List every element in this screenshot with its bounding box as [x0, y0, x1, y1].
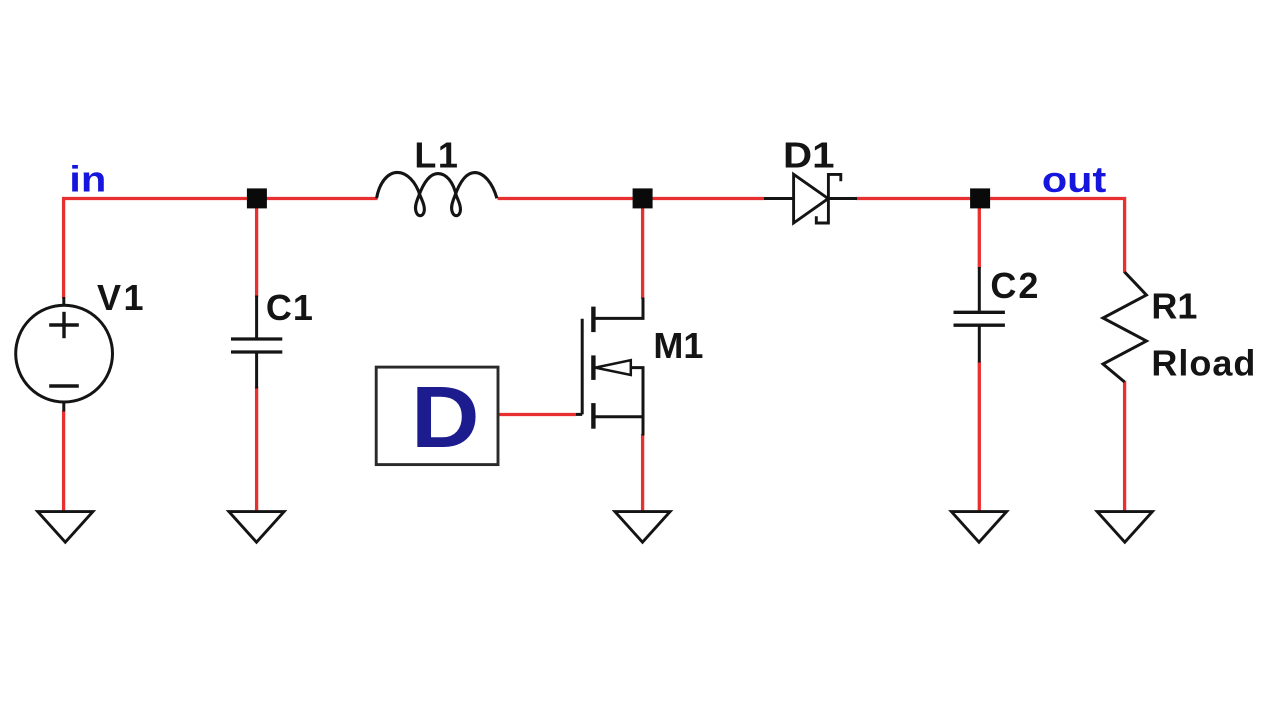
svg-text:D1: D1: [783, 135, 835, 176]
svg-text:C2: C2: [990, 265, 1040, 306]
svg-text:M1: M1: [653, 325, 703, 366]
svg-text:C1: C1: [266, 287, 314, 328]
svg-text:out: out: [1042, 160, 1106, 200]
svg-text:Rload: Rload: [1151, 343, 1256, 384]
svg-text:L1: L1: [414, 135, 459, 176]
svg-text:in: in: [69, 160, 106, 200]
svg-text:R1: R1: [1151, 286, 1197, 327]
svg-text:D: D: [411, 370, 480, 466]
svg-text:V1: V1: [97, 277, 146, 318]
